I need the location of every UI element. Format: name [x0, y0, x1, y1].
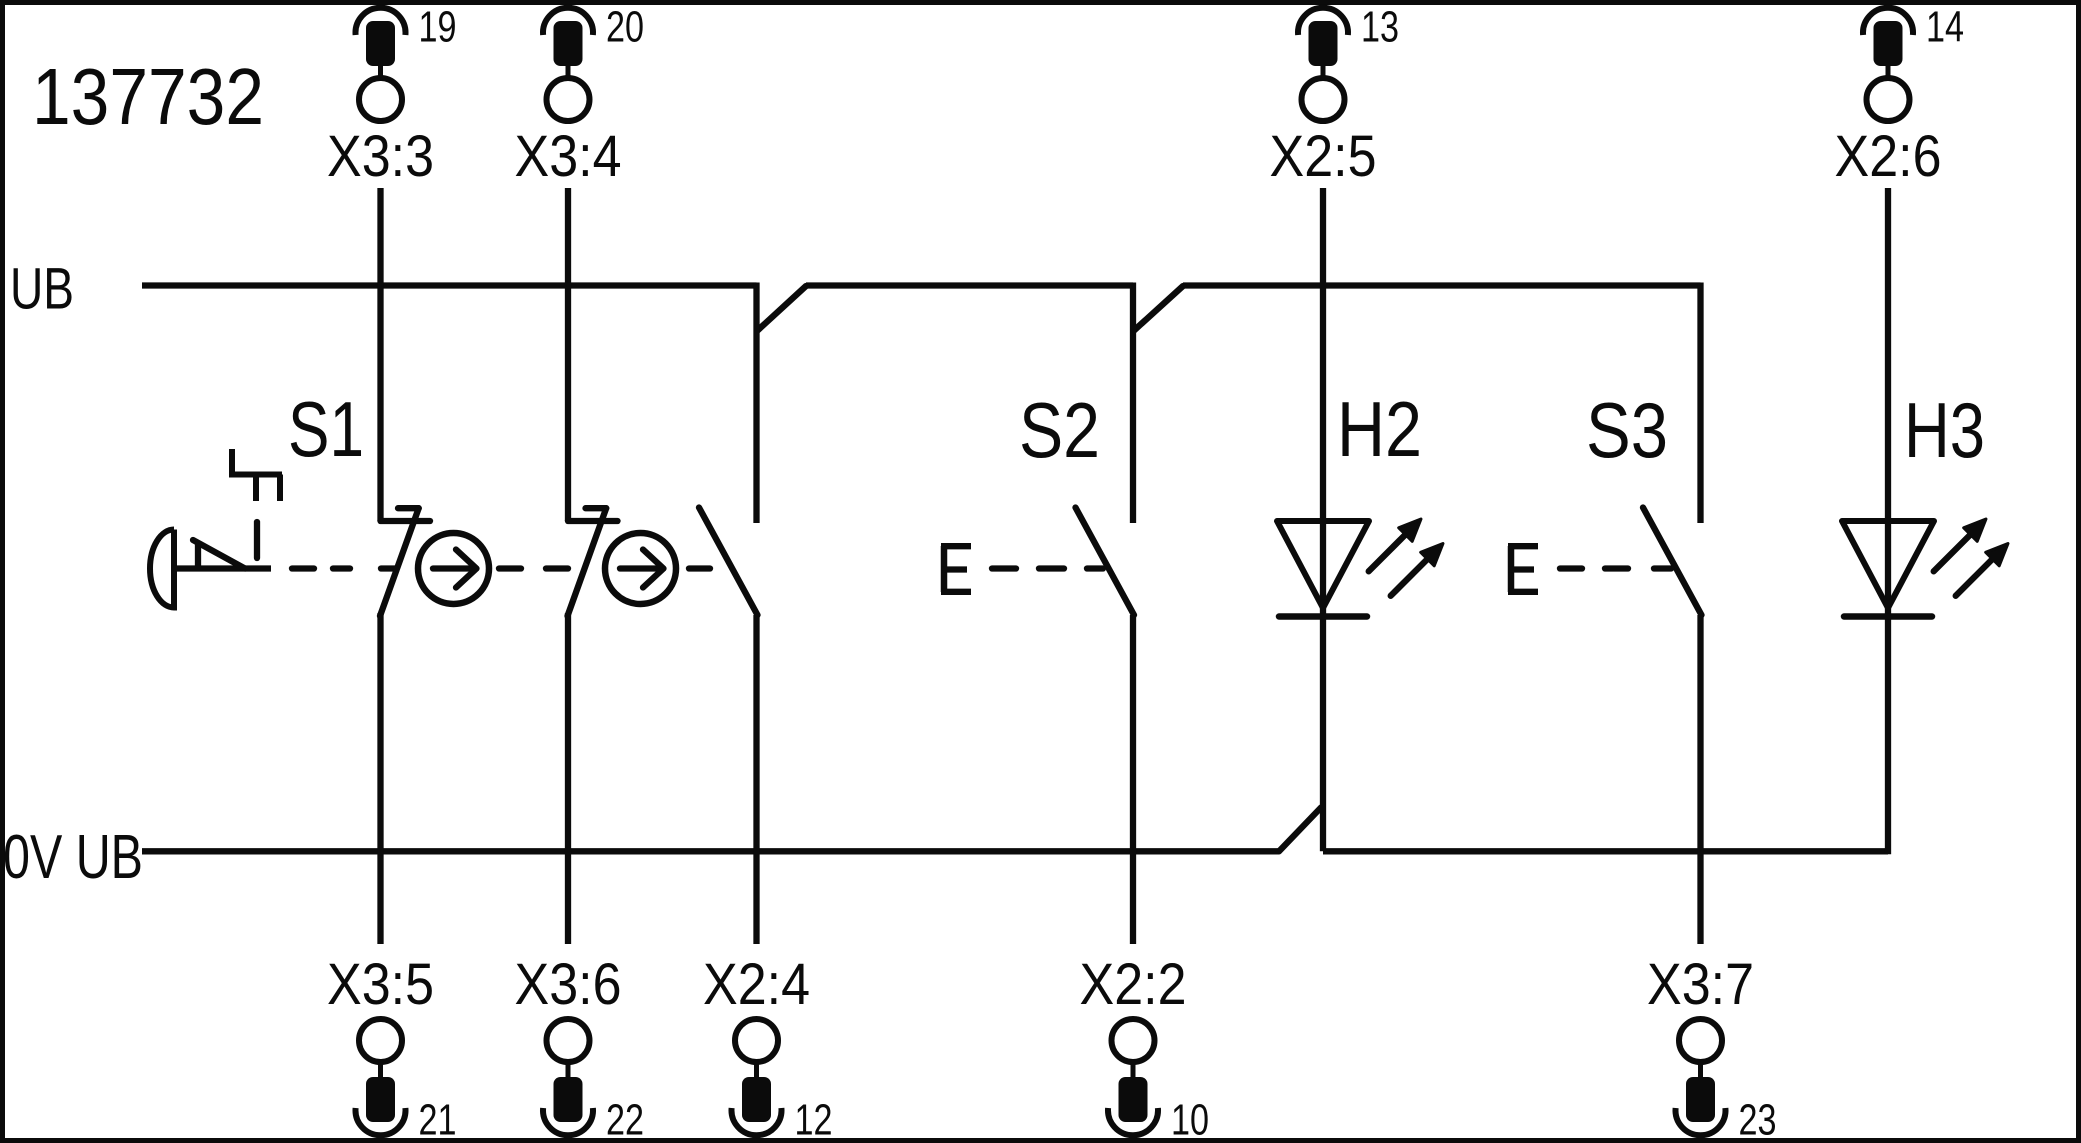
svg-text:X3:3: X3:3	[327, 124, 434, 189]
svg-text:X2:5: X2:5	[1270, 124, 1377, 189]
svg-text:19: 19	[419, 3, 457, 52]
svg-text:X3:4: X3:4	[515, 124, 622, 189]
svg-text:14: 14	[1926, 3, 1964, 52]
svg-text:0V UB: 0V UB	[3, 823, 143, 892]
svg-text:10: 10	[1171, 1096, 1209, 1143]
svg-text:20: 20	[606, 3, 644, 52]
svg-text:S2: S2	[1019, 386, 1100, 474]
svg-text:137732: 137732	[32, 52, 264, 141]
svg-text:12: 12	[795, 1096, 833, 1143]
svg-text:S3: S3	[1586, 386, 1668, 474]
svg-text:22: 22	[606, 1096, 644, 1143]
svg-text:X3:5: X3:5	[327, 952, 434, 1017]
svg-text:X2:2: X2:2	[1080, 952, 1187, 1017]
svg-text:S1: S1	[288, 385, 364, 473]
svg-text:X3:6: X3:6	[515, 952, 622, 1017]
svg-text:21: 21	[419, 1096, 457, 1143]
svg-text:23: 23	[1739, 1096, 1777, 1143]
svg-text:X2:6: X2:6	[1835, 124, 1942, 189]
svg-text:UB: UB	[10, 257, 74, 322]
svg-text:H3: H3	[1904, 386, 1985, 474]
svg-text:13: 13	[1361, 3, 1399, 52]
svg-text:H2: H2	[1337, 385, 1422, 473]
svg-text:X2:4: X2:4	[703, 952, 810, 1017]
svg-text:X3:7: X3:7	[1647, 952, 1754, 1017]
